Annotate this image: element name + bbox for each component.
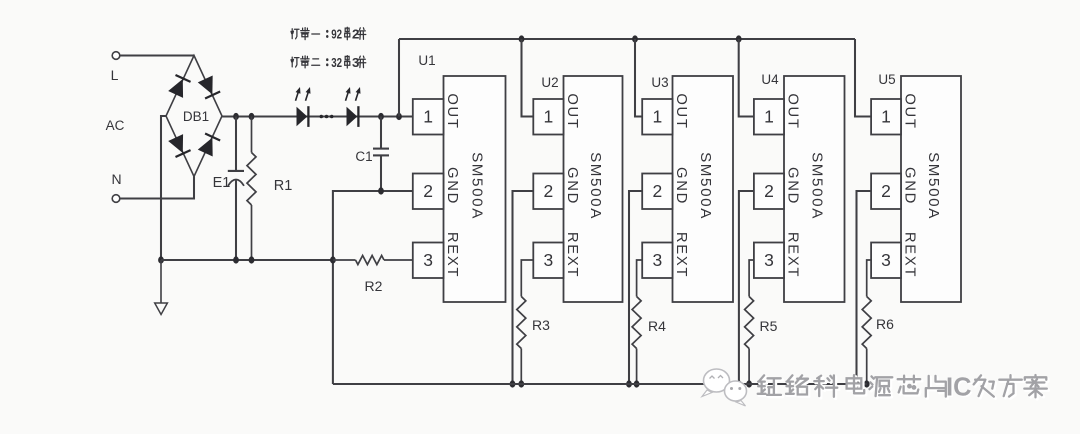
resistor R4 bbox=[632, 260, 666, 384]
LED string label line 1 bbox=[291, 27, 366, 42]
capacitor E1 bbox=[213, 113, 244, 264]
pin 3 U3 bbox=[642, 243, 672, 279]
svg-text:IC: IC bbox=[946, 374, 972, 402]
LED LED2 bbox=[346, 87, 361, 127]
wire L to bridge top bbox=[120, 54, 194, 56]
svg-text:REXT: REXT bbox=[444, 232, 460, 278]
diode D3 lower-left (left to bottom) bbox=[168, 134, 190, 157]
svg-text:1: 1 bbox=[544, 107, 554, 127]
svg-text:GND: GND bbox=[785, 167, 801, 205]
pin label GND U1 bbox=[444, 167, 460, 205]
wire top bus to pin1 U4 bbox=[739, 39, 754, 117]
pin 1 U5 bbox=[871, 99, 901, 135]
wire GND drop U1 bbox=[333, 191, 413, 384]
svg-text:1: 1 bbox=[764, 107, 774, 127]
watermark logo bbox=[702, 369, 747, 406]
svg-text:REXT: REXT bbox=[564, 232, 580, 278]
junction bus GND U4 bbox=[736, 380, 742, 387]
svg-text:REXT: REXT bbox=[785, 232, 801, 278]
junction top bus U3 bbox=[632, 35, 638, 42]
wire GND drop U3 bbox=[629, 191, 642, 384]
junction bus R5 bbox=[746, 380, 752, 387]
svg-text:L: L bbox=[111, 67, 119, 83]
pin 1 U3 bbox=[642, 99, 672, 135]
svg-text:2: 2 bbox=[652, 181, 662, 201]
resistor R2 bbox=[333, 256, 413, 295]
resistor R3 bbox=[517, 260, 550, 384]
junction bus GND U5 bbox=[854, 380, 860, 387]
junction C1 to GND wire bbox=[378, 187, 384, 194]
pin label GND U3 bbox=[673, 167, 689, 205]
svg-text:32: 32 bbox=[331, 55, 342, 70]
wire GND drop U5 bbox=[857, 191, 872, 384]
junction mid bus / GND drop bbox=[330, 256, 336, 263]
svg-text:U1: U1 bbox=[418, 53, 435, 68]
svg-text:2: 2 bbox=[881, 181, 891, 201]
pin label REXT U3 bbox=[673, 232, 689, 278]
wire GND drop U2 bbox=[513, 191, 534, 384]
wire top bus to pin1 U3 bbox=[635, 39, 642, 117]
svg-text:OUT: OUT bbox=[444, 93, 460, 129]
bridge rectifier DB1 bbox=[166, 56, 222, 177]
svg-text:U5: U5 bbox=[878, 72, 895, 87]
svg-text:1: 1 bbox=[652, 107, 662, 127]
svg-text:C1: C1 bbox=[355, 149, 372, 164]
terminal L bbox=[111, 52, 120, 83]
wire bottom bus bbox=[333, 383, 867, 385]
pin label GND U5 bbox=[902, 167, 918, 205]
op-amp U1 body SM500A bbox=[444, 76, 506, 302]
pin 3 U1 bbox=[413, 243, 444, 279]
node continuation dots bbox=[320, 115, 334, 119]
pin 3 U4 bbox=[754, 243, 784, 279]
pin 1 U1 bbox=[413, 99, 444, 135]
pin 2 U2 bbox=[533, 174, 563, 210]
svg-text:1: 1 bbox=[423, 107, 433, 127]
svg-text:2: 2 bbox=[423, 181, 433, 201]
diode D4 lower-right (bottom to right) bbox=[198, 134, 220, 157]
junction bridge-neg / bus bbox=[158, 256, 164, 263]
svg-text:OUT: OUT bbox=[564, 93, 580, 129]
wire LED rail bbox=[222, 115, 413, 117]
ground bbox=[155, 260, 168, 315]
wire bridge left vertex down to gnd bus bbox=[161, 116, 166, 260]
resistor R6 bbox=[862, 260, 894, 384]
pin label OUT U3 bbox=[673, 93, 689, 129]
diode D2 upper-right (top to right) bbox=[198, 76, 220, 99]
LED LED1 bbox=[296, 87, 311, 127]
svg-text:2: 2 bbox=[764, 181, 774, 201]
junction bus GND U3 bbox=[626, 380, 632, 387]
pin label GND U4 bbox=[785, 167, 801, 205]
svg-text:U3: U3 bbox=[651, 75, 668, 90]
svg-text:GND: GND bbox=[673, 167, 689, 205]
pin label GND U2 bbox=[564, 167, 580, 205]
junction bus R4 bbox=[634, 380, 640, 387]
pin label REXT U5 bbox=[902, 232, 918, 278]
svg-text:2: 2 bbox=[544, 181, 554, 201]
junction bus R6 bbox=[864, 380, 870, 387]
svg-text:N: N bbox=[111, 171, 121, 187]
svg-text:1: 1 bbox=[881, 107, 891, 127]
pin 3 U2 bbox=[533, 243, 563, 279]
pin label REXT U2 bbox=[564, 232, 580, 278]
pin 2 U3 bbox=[642, 174, 672, 210]
svg-text:GND: GND bbox=[564, 167, 580, 205]
pin label OUT U1 bbox=[444, 93, 460, 129]
svg-text:R3: R3 bbox=[532, 317, 550, 333]
pin 2 U4 bbox=[754, 174, 784, 210]
wire N to bridge bottom bbox=[120, 177, 194, 199]
watermark text bbox=[758, 374, 1049, 404]
resistor R5 bbox=[745, 260, 778, 384]
op-amp U4 body SM500A bbox=[784, 76, 845, 302]
op-amp U2 body SM500A bbox=[564, 76, 623, 302]
svg-text:SM500A: SM500A bbox=[808, 152, 825, 220]
pin label OUT U4 bbox=[785, 93, 801, 129]
svg-text:3: 3 bbox=[423, 250, 433, 270]
svg-text:R6: R6 bbox=[876, 316, 894, 332]
terminal N bbox=[111, 171, 121, 202]
svg-text:3: 3 bbox=[764, 250, 774, 270]
pin label OUT U2 bbox=[564, 93, 580, 129]
junction top bus U2 bbox=[519, 35, 525, 42]
svg-text:REXT: REXT bbox=[673, 232, 689, 278]
pin label REXT U1 bbox=[444, 232, 460, 278]
svg-text:R4: R4 bbox=[648, 318, 666, 334]
pin label REXT U4 bbox=[785, 232, 801, 278]
svg-text:R1: R1 bbox=[274, 178, 293, 194]
svg-text:SM500A: SM500A bbox=[697, 152, 714, 220]
junction bus R3 bbox=[518, 380, 524, 387]
op-amp U3 body SM500A bbox=[673, 76, 734, 302]
resistor R1 bbox=[247, 113, 292, 264]
wire top bus to pin1 U2 bbox=[522, 39, 534, 117]
wire top bus bbox=[399, 38, 855, 40]
svg-text:AC: AC bbox=[106, 118, 125, 133]
svg-text:3: 3 bbox=[881, 250, 891, 270]
LED string label line 2 bbox=[291, 55, 366, 70]
svg-text:SM500A: SM500A bbox=[587, 152, 604, 220]
svg-text:R2: R2 bbox=[365, 278, 383, 294]
wire GND drop U4 bbox=[739, 191, 754, 384]
pin 2 U5 bbox=[871, 174, 901, 210]
pin label OUT U5 bbox=[902, 93, 918, 129]
svg-text:OUT: OUT bbox=[673, 93, 689, 129]
svg-text:OUT: OUT bbox=[902, 93, 918, 129]
svg-text:3: 3 bbox=[652, 250, 662, 270]
svg-text:SM500A: SM500A bbox=[469, 152, 486, 220]
svg-text:GND: GND bbox=[444, 167, 460, 205]
wire riser to top bus bbox=[396, 113, 402, 120]
svg-text:92: 92 bbox=[331, 27, 342, 42]
junction bus GND U2 bbox=[510, 380, 516, 387]
svg-text:U2: U2 bbox=[541, 75, 558, 90]
svg-text:E1: E1 bbox=[213, 175, 231, 191]
pin 2 U1 bbox=[413, 174, 444, 210]
svg-text:REXT: REXT bbox=[902, 232, 918, 278]
wire gnd mid bus bbox=[161, 259, 333, 261]
pin 3 U5 bbox=[871, 243, 901, 279]
svg-text:R5: R5 bbox=[760, 318, 778, 334]
svg-text:OUT: OUT bbox=[785, 93, 801, 129]
capacitor C1 bbox=[355, 113, 389, 191]
junction top bus U4 bbox=[736, 35, 742, 42]
pin 1 U4 bbox=[754, 99, 784, 135]
diode D1 upper-left (left to top) bbox=[168, 75, 190, 98]
svg-text:GND: GND bbox=[902, 167, 918, 205]
svg-text:3: 3 bbox=[544, 250, 554, 270]
svg-text:SM500A: SM500A bbox=[925, 152, 942, 220]
wire top bus to pin1 U5 bbox=[855, 39, 871, 117]
op-amp U5 body SM500A bbox=[901, 76, 961, 302]
pin 1 U2 bbox=[533, 99, 563, 135]
svg-text:DB1: DB1 bbox=[183, 109, 209, 124]
svg-text:U4: U4 bbox=[761, 72, 779, 87]
